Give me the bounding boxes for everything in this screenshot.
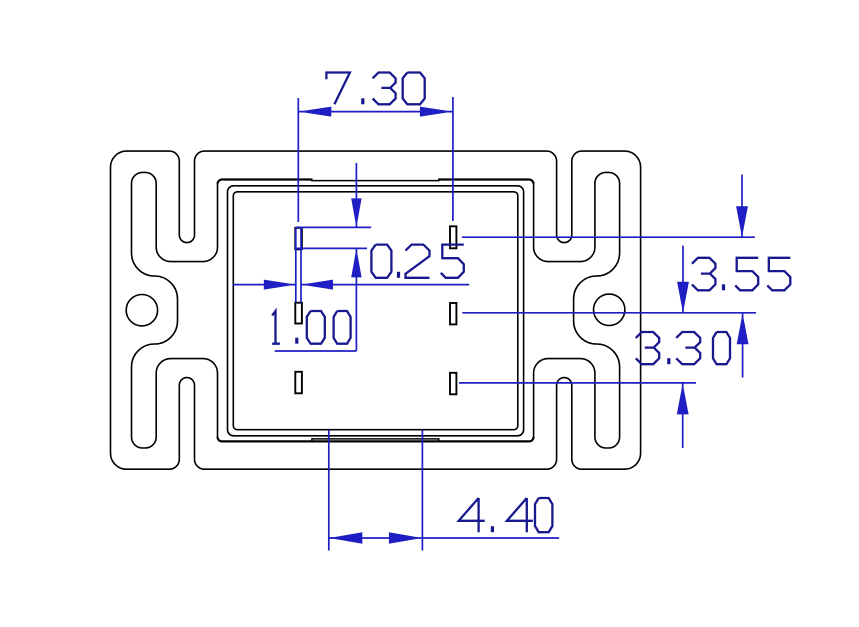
dimension text "0.25" bbox=[371, 245, 463, 278]
dimension text "4.40" bbox=[459, 498, 553, 532]
right mounting hole bbox=[594, 294, 625, 325]
dim 3.55 upper arrow bbox=[741, 175, 743, 238]
body top edge bbox=[218, 179, 534, 183]
dimension text "3.30" bbox=[636, 332, 730, 364]
pin 5 (bottom-left) bbox=[295, 372, 302, 394]
dim 0.25 extension line left bbox=[295, 228, 297, 303]
body top recess line bbox=[312, 179, 439, 181]
dim reference line row2 bbox=[462, 312, 756, 314]
dimension text "1.00" bbox=[272, 311, 350, 344]
dim 4.40 dimension/leader line bbox=[329, 537, 559, 539]
right wing serpentine slot bbox=[534, 172, 620, 448]
dim 1.00 upper arrow line bbox=[355, 163, 357, 227]
dim 0.25 left arrow line bbox=[233, 284, 295, 286]
dim 7.30 dimension line bbox=[298, 111, 453, 113]
inner case rect inner bbox=[233, 192, 518, 430]
pin 3 (mid-left) bbox=[295, 303, 302, 324]
dim 7.30 extension line right bbox=[452, 97, 454, 221]
left mounting hole bbox=[126, 295, 157, 326]
dim 3.30 upper arrow bbox=[742, 313, 744, 377]
body bottom tab line bbox=[312, 439, 439, 442]
dim 7.30 arrow left bbox=[298, 107, 331, 117]
dim 7.30 extension line left bbox=[297, 98, 299, 222]
body bottom edge bbox=[218, 437, 534, 441]
dim 4.40 extension line left bbox=[328, 430, 330, 551]
part outline: outer envelope with mounting wings bbox=[111, 151, 641, 469]
dim 1.00 leader underline bbox=[275, 350, 357, 352]
pin 4 (mid-right) bbox=[450, 303, 456, 324]
dim 3.30 reference line row3 bbox=[459, 382, 696, 384]
left wing serpentine slot bbox=[132, 172, 218, 448]
dim 3.55 lower arrow bbox=[682, 246, 684, 313]
inner case rect outer bbox=[228, 186, 524, 436]
dim 4.40 extension line right bbox=[421, 430, 423, 551]
dim 3.30 lower arrow bbox=[682, 383, 684, 448]
pin 2 (top-right) bbox=[450, 226, 456, 248]
dim 1.00 lower arrow line bbox=[355, 248, 357, 351]
dimension text "3.55" bbox=[692, 258, 790, 291]
dim 1.00 upper extension line bbox=[296, 226, 371, 228]
dimension text "7.30" bbox=[326, 73, 424, 105]
dim 0.25 right arrow/leader line bbox=[301, 284, 469, 286]
pin 6 (bottom-right) bbox=[450, 373, 456, 395]
pin 1 (top-left) bbox=[295, 228, 302, 249]
dim 1.00 lower extension line bbox=[296, 247, 367, 249]
dim 0.25 extension line right bbox=[300, 228, 302, 303]
dim 7.30 arrow right bbox=[420, 107, 453, 117]
dim 3.55 reference line row1 bbox=[462, 236, 755, 238]
